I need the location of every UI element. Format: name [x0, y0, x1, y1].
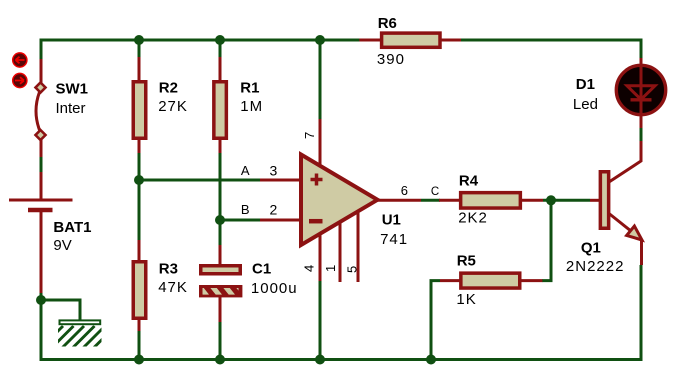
svg-text:Q1: Q1 — [581, 239, 601, 256]
svg-text:9V: 9V — [53, 237, 71, 254]
svg-text:2N2222: 2N2222 — [566, 258, 625, 275]
wire R4 right to base — [543, 199, 590, 202]
svg-text:R4: R4 — [459, 172, 479, 189]
svg-text:SW1: SW1 — [56, 81, 89, 98]
wire junction down to R5 — [542, 200, 551, 280]
wire col4 pin4 drop — [319, 281, 322, 360]
wire col3 top — [219, 40, 222, 58]
svg-text:R2: R2 — [159, 80, 178, 97]
node A junction — [134, 175, 144, 185]
ground — [41, 320, 116, 348]
wire emitter to bottom rail — [640, 265, 643, 360]
svg-text:1000u: 1000u — [251, 280, 298, 297]
svg-text:2: 2 — [270, 202, 278, 218]
wire col4 pin7 drop — [319, 40, 322, 120]
svg-text:390: 390 — [377, 51, 405, 68]
svg-text:27K: 27K — [158, 98, 188, 115]
svg-text:R6: R6 — [378, 15, 397, 32]
svg-text:2K2: 2K2 — [458, 210, 488, 227]
svg-text:1: 1 — [323, 265, 338, 272]
svg-text:D1: D1 — [576, 76, 595, 93]
node B junction — [215, 215, 225, 225]
svg-text:3: 3 — [270, 163, 278, 179]
junction bottom rail R5 — [426, 355, 436, 365]
switch SW1 — [36, 59, 46, 158]
wire col3 bottom — [219, 322, 222, 360]
svg-text:R1: R1 — [240, 80, 259, 97]
resistor R2 — [133, 57, 146, 154]
resistor R4 — [439, 193, 543, 208]
switch button down — [13, 73, 27, 87]
junction bottom rail col3 — [215, 355, 225, 365]
junction battery-ground — [36, 295, 46, 305]
junction top rail col2 — [134, 35, 144, 45]
junction top rail col3 — [215, 35, 225, 45]
wire LED to collector — [640, 128, 643, 141]
battery BAT1 — [9, 172, 73, 294]
wire R5 left down to rail — [431, 281, 440, 360]
svg-text:6: 6 — [401, 183, 408, 198]
resistor R3 — [133, 240, 146, 332]
svg-text:47K: 47K — [158, 279, 188, 296]
svg-text:1M: 1M — [240, 98, 263, 115]
svg-text:Led: Led — [573, 96, 598, 113]
svg-text:BAT1: BAT1 — [53, 219, 91, 236]
svg-text:C1: C1 — [252, 260, 271, 277]
svg-text:741: 741 — [380, 231, 408, 248]
junction top rail col4 — [315, 35, 325, 45]
svg-text:B: B — [241, 202, 250, 217]
wire node A horizontal — [139, 179, 260, 182]
svg-text:C: C — [431, 186, 439, 198]
transistor Q1 — [590, 140, 642, 265]
resistor R6 — [359, 33, 461, 47]
wire battery to bottom rail — [41, 293, 643, 360]
wire top rail right to LED column — [461, 40, 641, 58]
LED D1 — [616, 58, 665, 128]
svg-text:5: 5 — [345, 266, 360, 273]
resistor R5 — [440, 273, 542, 288]
wire switch to battery — [40, 157, 43, 173]
op-amp U1 — [260, 119, 421, 282]
wire col2 mid — [138, 153, 141, 241]
svg-text:A: A — [241, 163, 250, 178]
junction bottom rail col2 — [134, 355, 144, 365]
junction bottom rail col4 — [315, 355, 325, 365]
svg-text:R5: R5 — [457, 252, 476, 269]
svg-text:7: 7 — [302, 132, 317, 139]
svg-text:Inter: Inter — [56, 100, 86, 117]
wire pin6 to R4 — [421, 199, 440, 202]
wire to ground — [41, 300, 80, 320]
svg-text:1K: 1K — [456, 291, 476, 308]
svg-text:R3: R3 — [159, 260, 178, 277]
wire node B horizontal — [220, 219, 260, 222]
wire col2 top — [138, 40, 141, 58]
svg-text:4: 4 — [302, 265, 317, 272]
svg-text:U1: U1 — [382, 212, 401, 229]
wire top rail left + left drop — [41, 40, 360, 60]
wire col3 mid — [219, 153, 222, 246]
junction R4-R5 — [546, 195, 556, 205]
wire col2 bottom — [138, 331, 141, 360]
switch button up — [13, 53, 27, 67]
resistor R1 — [214, 57, 227, 154]
capacitor C1 — [199, 245, 246, 322]
